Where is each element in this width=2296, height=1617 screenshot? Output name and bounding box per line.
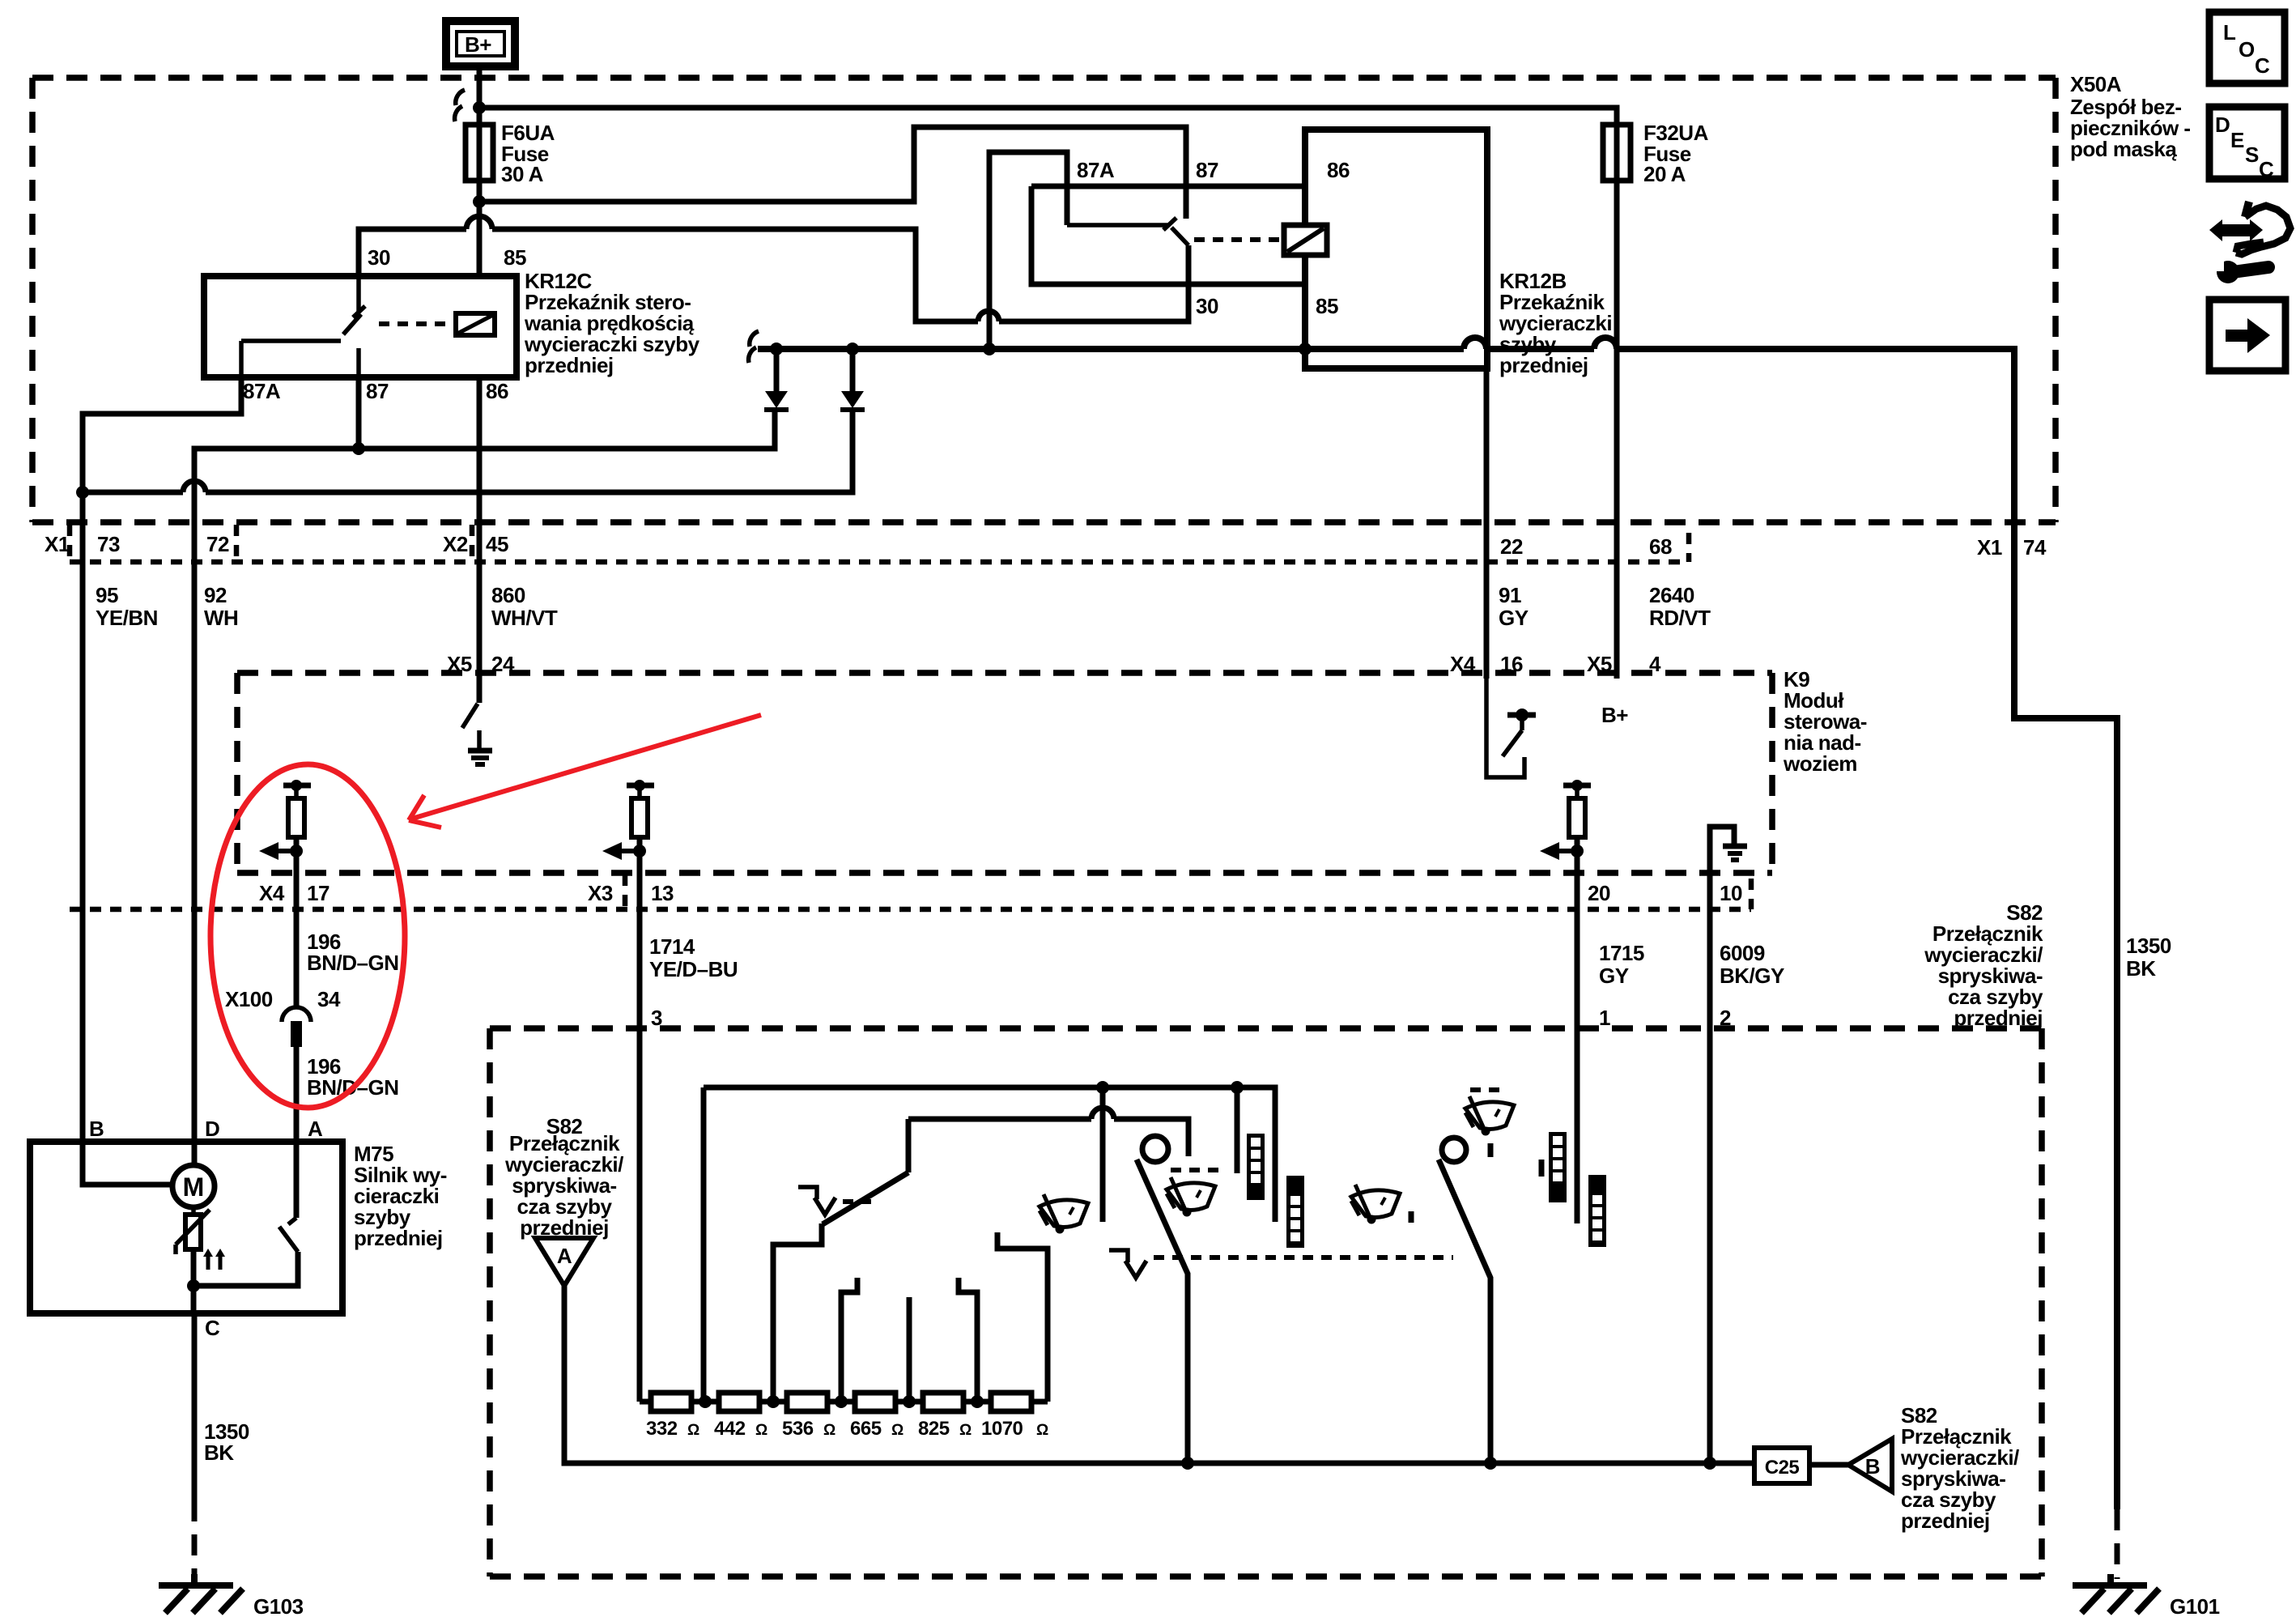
ladder riser 3 bbox=[841, 1278, 857, 1402]
ladder riser 5 bbox=[959, 1278, 977, 1402]
relay KR12B box bbox=[1305, 130, 1487, 368]
wire 1714 YE/D-BU bbox=[637, 873, 643, 1402]
wiper icon D bbox=[1465, 1096, 1514, 1136]
svg-text:442: 442 bbox=[714, 1418, 746, 1440]
svg-text:87: 87 bbox=[1196, 158, 1218, 182]
svg-text:2640: 2640 bbox=[1649, 583, 1694, 607]
K9 output driver at pin X4-17 bbox=[259, 780, 311, 873]
wiper icon C bbox=[1351, 1185, 1400, 1224]
wire diode1 line to pin 72 bbox=[194, 411, 775, 522]
KR12C coil bbox=[456, 313, 495, 335]
K9 output driver at pin 20 bbox=[1540, 780, 1591, 873]
circuit 6009 BK/GY label bbox=[1720, 941, 1784, 988]
off-page triangle A bbox=[535, 1238, 593, 1286]
wire KR12B 87A contact line bbox=[1067, 218, 1176, 230]
sidebar wrench icon bbox=[2214, 261, 2268, 283]
svg-text:536: 536 bbox=[782, 1418, 814, 1440]
svg-text:860: 860 bbox=[491, 583, 525, 607]
resistor 332 ohm bbox=[651, 1393, 691, 1411]
fuse box X50A dashed outline bbox=[32, 78, 2056, 522]
diode D1 bbox=[764, 349, 789, 410]
svg-text:O: O bbox=[2239, 37, 2255, 62]
svg-text:BK/GY: BK/GY bbox=[1720, 964, 1784, 988]
svg-text:1715: 1715 bbox=[1599, 941, 1644, 965]
hop of contact line over mid wire bbox=[1091, 1108, 1114, 1119]
battery feed B+ box bbox=[446, 21, 515, 66]
ladder node 5 bbox=[971, 1395, 984, 1408]
circuit 1350 BK left label bbox=[204, 1419, 249, 1465]
sidebar DESC button bbox=[2209, 107, 2285, 181]
svg-text:RD/VT: RD/VT bbox=[1649, 606, 1711, 630]
svg-text:BK: BK bbox=[2126, 956, 2156, 981]
wire KR12B pin22 riser to X4-16 bbox=[1484, 368, 1490, 679]
svg-text:G103: G103 bbox=[253, 1594, 304, 1617]
node on diode1 line bbox=[352, 442, 365, 455]
node 87A / diode2 branch bbox=[76, 486, 89, 499]
ladder riser 6 bbox=[997, 1232, 1048, 1402]
svg-text:13: 13 bbox=[651, 881, 674, 905]
svg-text:Ω: Ω bbox=[1036, 1422, 1048, 1439]
svg-text:Ω: Ω bbox=[755, 1422, 767, 1439]
ground G103 bbox=[159, 1574, 304, 1617]
svg-text:woziem: woziem bbox=[1783, 751, 1857, 776]
circuit 860 WH/VT label bbox=[491, 583, 558, 630]
KR12C switch arm bbox=[241, 229, 365, 377]
S82 name label right lower bbox=[1900, 1403, 2019, 1533]
wire C25 to triangle B bbox=[1809, 1462, 1848, 1468]
M75 park switch bbox=[193, 1142, 298, 1286]
ladder riser 4 bbox=[907, 1297, 912, 1402]
wire 860 WH/VT bbox=[477, 522, 483, 703]
circuit 92 WH label bbox=[204, 583, 238, 630]
wire 85 feed to KR12B 87 contact bbox=[479, 127, 1186, 219]
connector bracket after 10 bbox=[1749, 879, 1754, 909]
M75 name label bbox=[354, 1142, 447, 1250]
svg-text:D: D bbox=[205, 1117, 219, 1141]
rail node wash switch bbox=[1181, 1457, 1194, 1470]
svg-text:20 A: 20 A bbox=[1643, 162, 1686, 186]
svg-text:WH/VT: WH/VT bbox=[491, 606, 558, 630]
svg-text:X5: X5 bbox=[447, 652, 472, 676]
svg-text:665: 665 bbox=[850, 1418, 882, 1440]
svg-text:1350: 1350 bbox=[2126, 934, 2171, 958]
svg-text:6009: 6009 bbox=[1720, 941, 1765, 965]
K9 internal switch at pin 16 bbox=[1486, 679, 1536, 777]
resistor 1070 ohm bbox=[991, 1393, 1031, 1411]
svg-text:Ω: Ω bbox=[687, 1422, 699, 1439]
svg-text:B: B bbox=[1865, 1454, 1880, 1479]
svg-text:74: 74 bbox=[2023, 535, 2047, 560]
wire KR12C 87 to diode1 line bbox=[356, 377, 362, 449]
KR12C coil actuation dashed link bbox=[379, 321, 456, 326]
S82 name label right upper bbox=[1924, 900, 2043, 1030]
ladder node 4 bbox=[903, 1395, 916, 1408]
wire feed to ladder bbox=[701, 1087, 707, 1402]
resistor 442 ohm bbox=[719, 1393, 759, 1411]
red annotation arrow bbox=[409, 715, 761, 828]
park symbol P2 with mech link bbox=[1109, 1250, 1453, 1278]
wire pin 68 down to K9 B+ bbox=[1614, 181, 1620, 679]
S82 ground rail wire bbox=[564, 1286, 1754, 1463]
circuit 1715 GY label bbox=[1599, 941, 1644, 988]
wash switch mech dashes bbox=[1171, 1168, 1218, 1172]
resistor 825 ohm bbox=[923, 1393, 963, 1411]
K9 lower connector dotted line bbox=[70, 907, 1751, 913]
svg-text:A: A bbox=[308, 1117, 323, 1141]
wire diode2 line bbox=[83, 411, 852, 492]
inline connector X100 bbox=[282, 1007, 311, 1047]
position bar 3 bbox=[1541, 1132, 1567, 1202]
splice break symbol on B+ wire bbox=[456, 90, 465, 105]
KR12B coil actuation dashed link bbox=[1194, 237, 1284, 242]
wire 1350 BK dashed to G101 bbox=[2115, 1509, 2120, 1579]
F32UA value label bbox=[1643, 121, 1709, 186]
svg-text:E: E bbox=[2230, 128, 2244, 152]
svg-text:L: L bbox=[2223, 20, 2236, 45]
F6UA value label bbox=[501, 121, 555, 186]
motor M bbox=[172, 1165, 215, 1207]
svg-text:1070: 1070 bbox=[981, 1418, 1023, 1440]
svg-text:825: 825 bbox=[918, 1418, 950, 1440]
wash switch circle bbox=[1142, 1136, 1168, 1162]
wire 91 GY bbox=[1484, 522, 1490, 679]
connector X1 bracket bbox=[67, 525, 73, 562]
svg-text:87: 87 bbox=[366, 379, 389, 403]
wire KR12B inner lower line bbox=[1031, 186, 1305, 284]
svg-text:91: 91 bbox=[1499, 583, 1521, 607]
svg-text:C25: C25 bbox=[1765, 1457, 1800, 1479]
svg-text:92: 92 bbox=[204, 583, 227, 607]
circuit 1714 YE/D-BU label bbox=[649, 934, 738, 981]
wire top rail to F32UA bbox=[479, 108, 1617, 125]
svg-text:YE/D–BU: YE/D–BU bbox=[649, 957, 738, 981]
circuit 91 GY label bbox=[1499, 583, 1529, 630]
svg-text:C: C bbox=[205, 1316, 220, 1340]
svg-text:X1: X1 bbox=[1977, 535, 2002, 560]
KR12B switch arm bbox=[1171, 228, 1188, 245]
svg-text:68: 68 bbox=[1649, 534, 1672, 559]
feed rail node 2 bbox=[1231, 1081, 1244, 1094]
resistor ladder rail bbox=[640, 1399, 1048, 1405]
wire 92 WH bbox=[192, 522, 198, 1165]
hop of rail over pin68 wire bbox=[1594, 338, 1639, 349]
module K9 dashed outline bbox=[237, 673, 1772, 873]
wire KR12B 86 feed bbox=[1031, 184, 1305, 189]
wire 95 YE/BN bbox=[80, 522, 86, 1142]
wire KR12C 87A to pin 73 bbox=[83, 377, 241, 522]
KR12B name label bbox=[1499, 269, 1612, 377]
svg-text:YE/BN: YE/BN bbox=[96, 606, 158, 630]
main thick rail from break to right edge bbox=[758, 349, 2117, 1509]
sidebar LOC button bbox=[2209, 12, 2285, 83]
svg-text:95: 95 bbox=[96, 583, 118, 607]
wash switch contact line bbox=[908, 1119, 1188, 1156]
X50A label bbox=[2070, 72, 2191, 161]
svg-text:10: 10 bbox=[1720, 881, 1742, 905]
svg-text:D: D bbox=[2215, 113, 2230, 137]
connector X3 bracket bbox=[623, 874, 628, 909]
park symbol P1 bbox=[798, 1187, 871, 1215]
svg-text:C: C bbox=[2259, 157, 2274, 181]
wiper switch arm bbox=[1439, 1160, 1490, 1463]
svg-text:72: 72 bbox=[206, 532, 229, 556]
svg-text:X100: X100 bbox=[225, 987, 273, 1011]
rail node at KR12B link bbox=[983, 343, 996, 355]
connector C25 bbox=[1754, 1448, 1809, 1483]
svg-text:WH: WH bbox=[204, 606, 238, 630]
svg-text:przedniej: przedniej bbox=[525, 353, 614, 377]
wiper switch circle bbox=[1442, 1138, 1466, 1162]
position bar 4 bbox=[1588, 1175, 1606, 1247]
splice break symbol on rail bbox=[750, 331, 759, 347]
svg-text:22: 22 bbox=[1500, 534, 1523, 559]
svg-text:20: 20 bbox=[1588, 881, 1610, 905]
contact wire mid bbox=[1100, 1087, 1106, 1222]
ground G101 bbox=[2073, 1574, 2220, 1617]
hop of rail over KR12B pin22 riser bbox=[1464, 338, 1509, 349]
hop of 30-wire over B+ wire bbox=[466, 216, 492, 229]
svg-text:87A: 87A bbox=[243, 379, 281, 403]
svg-text:przedniej: przedniej bbox=[1499, 353, 1588, 377]
wash switch arm bbox=[1137, 1160, 1188, 1463]
svg-text:86: 86 bbox=[1327, 158, 1350, 182]
svg-text:30: 30 bbox=[1196, 294, 1218, 318]
node M75 common bbox=[187, 1279, 200, 1292]
svg-text:30 A: 30 A bbox=[501, 162, 544, 186]
wire 1350 BK left bbox=[192, 1313, 198, 1500]
sidebar next-page button bbox=[2209, 300, 2285, 371]
node below F6UA bbox=[473, 195, 486, 208]
svg-text:1714: 1714 bbox=[649, 934, 695, 959]
red highlight ellipse bbox=[210, 764, 405, 1108]
KR12C name label bbox=[524, 269, 700, 377]
connector X2 bracket bbox=[470, 525, 475, 562]
svg-text:Ω: Ω bbox=[891, 1422, 904, 1439]
ladder node 3 bbox=[835, 1395, 848, 1408]
svg-text:1: 1 bbox=[1599, 1006, 1610, 1030]
wire 1715 GY bbox=[1575, 873, 1580, 1223]
svg-text:B+: B+ bbox=[465, 32, 491, 57]
svg-text:przedniej: przedniej bbox=[1954, 1006, 2043, 1030]
contact wire at bar1 bbox=[1235, 1087, 1240, 1173]
svg-text:45: 45 bbox=[486, 532, 508, 556]
resistor value labels bbox=[646, 1418, 1048, 1440]
svg-text:X5: X5 bbox=[1587, 652, 1612, 676]
svg-text:87A: 87A bbox=[1077, 158, 1115, 182]
svg-text:X2: X2 bbox=[443, 532, 468, 556]
connector bracket after 72 bbox=[234, 525, 240, 562]
rail node wiper switch bbox=[1484, 1457, 1497, 1470]
diode D2 bbox=[840, 349, 865, 410]
K9 internal switch at pin 24 with ground bbox=[462, 673, 492, 764]
wire KR12B inner link bbox=[989, 152, 1067, 349]
sidebar glove icon bbox=[2236, 202, 2290, 254]
rail node at KR12B pin85 bbox=[1299, 343, 1312, 355]
circuit 196 BN/D-GN label upper bbox=[307, 930, 399, 975]
connector row dotted line bbox=[70, 560, 1689, 565]
svg-text:B+: B+ bbox=[1601, 703, 1628, 727]
K9 internal ground at pin 10 bbox=[1710, 827, 1747, 873]
svg-text:17: 17 bbox=[307, 881, 330, 905]
resistor 665 ohm bbox=[855, 1393, 895, 1411]
wire 196 BN/D-GN upper bbox=[294, 873, 300, 1006]
wire 1350 BK dashed to G103 bbox=[192, 1500, 198, 1579]
circuit 95 YE/BN label bbox=[96, 583, 158, 630]
svg-text:332: 332 bbox=[646, 1418, 678, 1440]
svg-text:X4: X4 bbox=[259, 881, 285, 905]
hop of KR12B bottom link over pin22 riser bbox=[978, 311, 999, 321]
resistor 536 ohm bbox=[787, 1393, 827, 1411]
svg-text:pod maską: pod maską bbox=[2070, 137, 2177, 161]
wire B+ to fuse F6UA bbox=[477, 66, 483, 125]
ladder node 2 bbox=[767, 1395, 780, 1408]
wire 196 BN/D-GN lower bbox=[294, 1047, 300, 1142]
ladder node 1 bbox=[699, 1395, 712, 1408]
svg-text:30: 30 bbox=[368, 245, 390, 270]
thermal arrows bbox=[203, 1249, 225, 1270]
K9 output driver at pin X3-13 bbox=[602, 780, 654, 873]
node at B+ rail bbox=[473, 101, 486, 114]
svg-text:M: M bbox=[183, 1172, 205, 1202]
sidebar double arrow bbox=[2209, 219, 2263, 241]
rail node 6009 bbox=[1703, 1457, 1716, 1470]
circuit 196 BN/D-GN label lower bbox=[307, 1054, 399, 1100]
relay KR12C box bbox=[204, 276, 517, 377]
wire KR12C 86 down to X2 pin 45 bbox=[477, 377, 483, 522]
svg-text:24: 24 bbox=[491, 652, 515, 676]
switch S82 dashed outline bbox=[490, 1028, 2042, 1577]
svg-text:Ω: Ω bbox=[959, 1422, 972, 1439]
svg-text:C: C bbox=[2255, 53, 2270, 78]
svg-text:16: 16 bbox=[1500, 652, 1523, 676]
svg-text:85: 85 bbox=[504, 245, 526, 270]
svg-text:S: S bbox=[2245, 143, 2259, 167]
svg-text:B: B bbox=[89, 1117, 104, 1141]
S82 top feed rail bbox=[704, 1087, 1275, 1222]
svg-text:X1: X1 bbox=[45, 532, 70, 556]
svg-text:X4: X4 bbox=[1450, 652, 1476, 676]
wire pin B to motor bbox=[83, 1142, 172, 1185]
svg-text:X3: X3 bbox=[588, 881, 613, 905]
wire thermal to node bbox=[191, 1249, 197, 1313]
svg-text:przedniej: przedniej bbox=[354, 1226, 443, 1250]
S82 name label left bbox=[504, 1114, 623, 1240]
wire 6009 BK/GY bbox=[1707, 873, 1713, 1465]
svg-text:34: 34 bbox=[317, 987, 341, 1011]
feed rail node 1 bbox=[1096, 1081, 1109, 1094]
connector bracket after 68 bbox=[1686, 533, 1692, 562]
svg-text:G101: G101 bbox=[2170, 1594, 2220, 1617]
position bar 2 bbox=[1286, 1176, 1304, 1248]
svg-text:GY: GY bbox=[1599, 964, 1629, 988]
wire fuse F6UA lower node bbox=[477, 181, 483, 273]
rail node at diode1 bbox=[770, 343, 783, 355]
svg-text:73: 73 bbox=[97, 532, 120, 556]
M75 thermal protector bbox=[176, 1207, 210, 1254]
K9 name label bbox=[1783, 667, 1867, 776]
svg-text:GY: GY bbox=[1499, 606, 1529, 630]
circuit 2640 RD/VT label bbox=[1649, 583, 1711, 630]
svg-text:85: 85 bbox=[1316, 294, 1338, 318]
svg-text:BN/D–GN: BN/D–GN bbox=[307, 951, 399, 975]
fuse F32UA bbox=[1603, 125, 1631, 181]
off-page triangle B bbox=[1848, 1439, 1892, 1491]
wire KR12C pin30 to KR12B common bbox=[359, 229, 1188, 321]
wiper icon B bbox=[1167, 1177, 1215, 1217]
hop of diode2 line over 92WH wire bbox=[183, 481, 206, 492]
svg-text:4: 4 bbox=[1649, 652, 1661, 676]
wire 1350 BK right label bbox=[2126, 934, 2171, 981]
svg-text:BK: BK bbox=[204, 1440, 234, 1465]
svg-text:X50A: X50A bbox=[2070, 72, 2122, 96]
rail node at diode2 bbox=[846, 343, 859, 355]
speed selector arm bbox=[773, 1119, 908, 1402]
position bar 1 bbox=[1247, 1134, 1265, 1200]
svg-text:Ω: Ω bbox=[823, 1422, 835, 1439]
motor M75 box bbox=[30, 1142, 342, 1313]
svg-text:A: A bbox=[557, 1244, 572, 1268]
svg-text:86: 86 bbox=[486, 379, 508, 403]
wiper icon A bbox=[1040, 1194, 1088, 1234]
KR12B coil bbox=[1284, 225, 1327, 255]
svg-text:przedniej: przedniej bbox=[1901, 1508, 1990, 1533]
fuse F6UA bbox=[466, 125, 493, 181]
